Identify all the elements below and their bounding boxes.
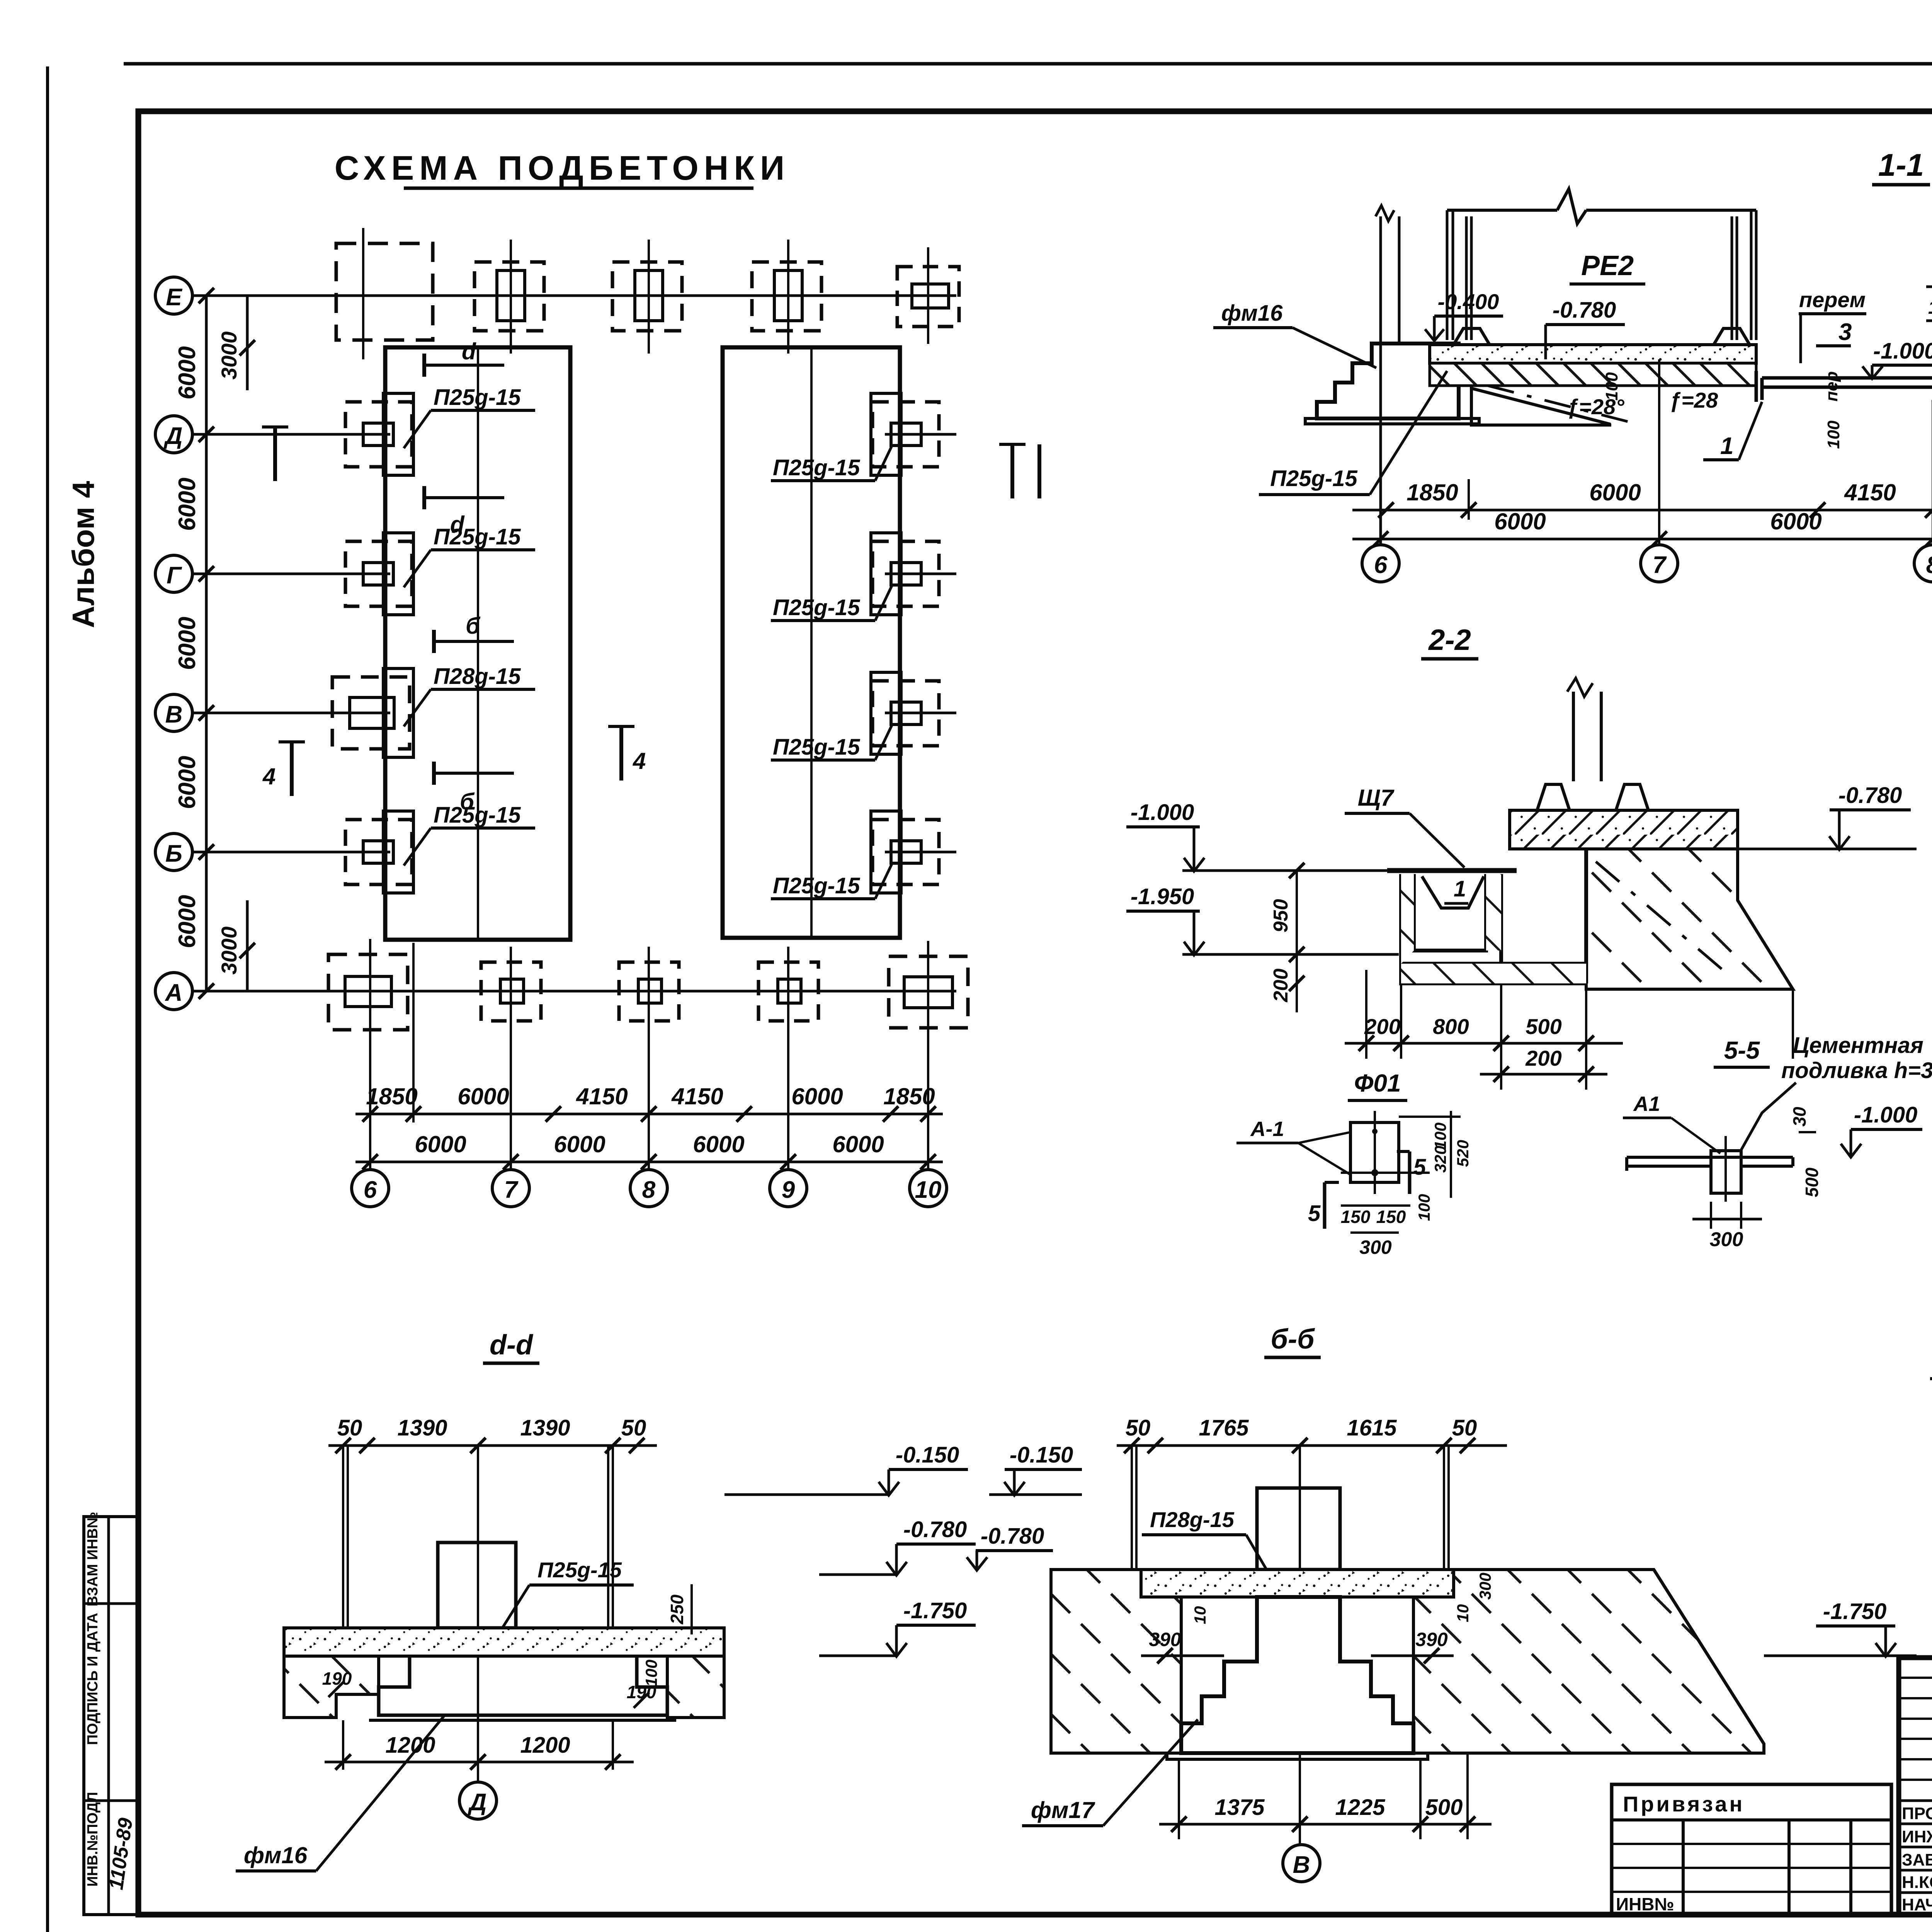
- svg-text:520: 520: [1454, 1140, 1472, 1167]
- row2 labels: [415, 1131, 884, 1157]
- cut mark b top: [434, 613, 514, 653]
- svg-text:П25g-15: П25g-15: [773, 735, 860, 760]
- foundation base plate b-b: [1167, 1753, 1428, 1759]
- slab RE2 concrete band: [1430, 345, 1756, 363]
- plan bubble 8: [630, 1170, 667, 1207]
- bottom dims 1200 1200: [325, 1720, 634, 1770]
- slab RE2 upstand left: [1454, 328, 1490, 345]
- soil hatch left d-d: [284, 1656, 379, 1718]
- svg-text:50: 50: [337, 1415, 362, 1440]
- svg-text:ПРОВЕР: ПРОВЕР: [1902, 1804, 1932, 1823]
- cut mark d top: [424, 338, 504, 377]
- heading b-b: [1264, 1324, 1321, 1357]
- svg-text:Альбом 4: Альбом 4: [66, 481, 100, 628]
- svg-text:50: 50: [621, 1415, 646, 1440]
- svg-text:100: 100: [642, 1660, 660, 1687]
- svg-text:В: В: [165, 701, 183, 728]
- soil mass dashdot: [1596, 862, 1727, 974]
- elevation -0.780 b-b: [967, 1524, 1053, 1570]
- sec1 dim row A: [1352, 480, 1932, 518]
- plan bubble 7: [492, 1170, 529, 1207]
- svg-text:5: 5: [1308, 1201, 1321, 1226]
- svg-text:фм17: фм17: [1031, 1797, 1095, 1823]
- grid line G right: [885, 573, 956, 575]
- cut mark 4 right: [608, 726, 646, 781]
- cut mark 4 left: [262, 742, 305, 796]
- svg-text:950: 950: [1270, 899, 1292, 933]
- svg-text:-0.780: -0.780: [903, 1517, 967, 1542]
- svg-text:-1.000: -1.000: [1873, 338, 1932, 364]
- dim ticks left column: [199, 288, 214, 999]
- title block small rows: [1899, 1678, 1932, 1780]
- cut mark 5 left: [1308, 1182, 1339, 1229]
- dim line row1: [355, 1113, 943, 1116]
- svg-text:Цементная: Цементная: [1793, 1033, 1923, 1058]
- label A1: [1623, 1092, 1720, 1153]
- svg-text:ИНВ№: ИНВ№: [1616, 1894, 1674, 1914]
- 5-5 plate: [1627, 1157, 1793, 1171]
- svg-text:3000: 3000: [217, 332, 241, 380]
- label FM16 left: [1213, 301, 1376, 368]
- svg-text:2-2: 2-2: [1428, 624, 1471, 656]
- svg-text:б: б: [460, 789, 475, 815]
- ground line right b-b: [1454, 1568, 1654, 1571]
- svg-text:500: 500: [1526, 1014, 1561, 1039]
- svg-text:7: 7: [1653, 552, 1667, 578]
- 3000 dim top: [217, 296, 255, 390]
- footing A7: [481, 947, 541, 1037]
- dim 150 150: [1926, 298, 1932, 321]
- tank RE2 right wall: [1732, 210, 1756, 340]
- elevation -1.000 5-5: [1841, 1102, 1922, 1157]
- PRIVYAZAN TABLE: [1612, 1784, 1891, 1915]
- svg-text:6000: 6000: [457, 1083, 509, 1109]
- svg-text:1850: 1850: [883, 1083, 935, 1109]
- svg-text:Щ7: Щ7: [1358, 785, 1395, 811]
- elevation -1.950 2-2: [1126, 884, 1399, 955]
- svg-text:500: 500: [1425, 1795, 1463, 1820]
- svg-text:300: 300: [1476, 1573, 1494, 1600]
- svg-text:250: 250: [667, 1594, 687, 1624]
- svg-text:10: 10: [915, 1177, 942, 1203]
- svg-text:-0.780: -0.780: [1553, 298, 1616, 323]
- elevation -1.000 2-2: [1126, 800, 1387, 871]
- foundation teeth right: [1616, 784, 1648, 810]
- F01 bottom dims: [1341, 1206, 1410, 1258]
- footing A9: [759, 947, 818, 1037]
- svg-text:1375: 1375: [1214, 1795, 1265, 1820]
- label P25g-15 d-d: [495, 1558, 634, 1640]
- label FM17 b-b: [1022, 1719, 1198, 1826]
- label P25g-15 row G right: [771, 584, 893, 621]
- tank RE2 top: [1447, 189, 1756, 224]
- svg-text:Г: Г: [167, 562, 182, 589]
- PLAN LABELS: [262, 338, 1039, 899]
- svg-text:Ф01: Ф01: [1354, 1069, 1401, 1097]
- elevation -0.150 b-b: [989, 1442, 1082, 1495]
- svg-text:6000: 6000: [1494, 509, 1546, 534]
- svg-text:РЕ2: РЕ2: [1581, 250, 1634, 281]
- F01 plate plan: [1341, 1111, 1430, 1194]
- svg-text:Д: Д: [468, 1789, 487, 1816]
- sec1 bubble 7: [1641, 545, 1678, 582]
- SECTION d-d: [236, 1330, 976, 1871]
- svg-text:П25g-15: П25g-15: [537, 1558, 622, 1582]
- svg-text:Н.КОНТР: Н.КОНТР: [1902, 1873, 1932, 1892]
- sec1 bubble 8: [1914, 545, 1932, 582]
- footing G left: [345, 533, 413, 615]
- svg-text:6000: 6000: [832, 1131, 884, 1157]
- concrete band 2-2: [1510, 810, 1738, 849]
- svg-text:30: 30: [1789, 1107, 1810, 1127]
- svg-text:300: 300: [1359, 1236, 1392, 1258]
- left foundation base plate: [1305, 418, 1479, 424]
- svg-text:Привязан: Привязан: [1623, 1792, 1745, 1816]
- svg-text:-1.750: -1.750: [1823, 1599, 1886, 1624]
- footing E7: [474, 240, 544, 354]
- privyazan box: [1612, 1784, 1891, 1915]
- DETAIL F01: [1236, 1069, 1472, 1258]
- svg-text:-0.150: -0.150: [1010, 1442, 1073, 1468]
- grid line E: [192, 294, 956, 297]
- slab RE2 upstand right: [1714, 328, 1750, 345]
- dim 300 5-5: [1692, 1202, 1762, 1251]
- svg-text:6000: 6000: [1770, 509, 1821, 534]
- svg-text:Е: Е: [166, 284, 182, 311]
- svg-text:10: 10: [1191, 1606, 1209, 1624]
- svg-text:4150: 4150: [576, 1083, 628, 1109]
- svg-text:ПОДПИСЬ И ДАТА: ПОДПИСЬ И ДАТА: [85, 1613, 101, 1745]
- svg-text:8: 8: [642, 1177, 656, 1203]
- svg-text:-0.780: -0.780: [981, 1524, 1044, 1549]
- svg-text:100: 100: [1602, 372, 1621, 401]
- svg-text:6: 6: [1374, 552, 1388, 578]
- footing B right: [871, 811, 939, 893]
- bottom dims b-b: [1159, 1753, 1492, 1839]
- dim 100 300 rot right b-b: [1454, 1573, 1494, 1622]
- grid bubble E: [155, 277, 192, 314]
- svg-text:П25g-15: П25g-15: [773, 873, 860, 898]
- SECTION b-b: [967, 1324, 1917, 1882]
- elevation -0.780 left: [1546, 298, 1625, 359]
- svg-text:10: 10: [1454, 1604, 1472, 1622]
- svg-text:3: 3: [1838, 319, 1852, 345]
- baseline b-b: [1051, 1752, 1167, 1755]
- svg-text:-1.000: -1.000: [1131, 800, 1194, 825]
- heading F01: [1348, 1069, 1407, 1100]
- row1 labels: [366, 1083, 935, 1109]
- svg-text:150: 150: [1928, 298, 1932, 318]
- svg-text:б: б: [466, 613, 481, 639]
- row1 ticks: [362, 1106, 936, 1122]
- row2 ticks: [362, 1154, 936, 1170]
- svg-text:1615: 1615: [1347, 1415, 1397, 1440]
- dims 200 800 500 bottom 2-2: [1345, 970, 1793, 1090]
- svg-text:d: d: [462, 338, 476, 364]
- svg-text:100: 100: [1431, 1122, 1449, 1150]
- svg-text:500: 500: [1802, 1167, 1822, 1197]
- svg-text:190: 190: [322, 1668, 352, 1689]
- dim line row2: [355, 1161, 943, 1163]
- plan title underline: [404, 187, 753, 190]
- svg-text:фм16: фм16: [244, 1842, 308, 1868]
- top dims d-d: [328, 1415, 657, 1453]
- foundation base line d-d: [369, 1719, 676, 1722]
- footing D right: [871, 393, 939, 475]
- svg-text:200: 200: [1270, 969, 1292, 1003]
- svg-text:800: 800: [1433, 1014, 1469, 1039]
- SECTION 1-1: [1213, 148, 1932, 582]
- PLAN BOTTOM DIMS: [352, 943, 947, 1207]
- svg-text:пер: пер: [1822, 371, 1841, 401]
- foundation d-d: [379, 1656, 667, 1715]
- stamp column divider vertical: [107, 1517, 110, 1915]
- column axis 6: [1376, 206, 1399, 545]
- svg-text:А1: А1: [1633, 1092, 1660, 1116]
- label Sch7: [1345, 785, 1464, 867]
- svg-text:П25g-15: П25g-15: [434, 524, 521, 549]
- stamp column box: [84, 1517, 138, 1915]
- title block name rows: [1899, 1801, 1932, 1893]
- cut mark 1 right: [999, 444, 1039, 498]
- svg-text:50: 50: [1452, 1415, 1477, 1440]
- footing E6 dashed: [336, 228, 433, 359]
- dim 390 right b-b: [1371, 1629, 1454, 1663]
- svg-text:-0.150: -0.150: [896, 1442, 959, 1468]
- label P25g-15 row D right: [771, 444, 893, 481]
- footing D left: [345, 393, 413, 475]
- label P25g-15 row B right: [771, 862, 893, 899]
- svg-text:9: 9: [782, 1177, 795, 1203]
- footing E10: [897, 247, 959, 344]
- dim 390 left b-b: [1141, 1629, 1224, 1663]
- 5-5 anchor block: [1711, 1136, 1741, 1202]
- slab band b-b: [1141, 1570, 1454, 1597]
- svg-text:6000: 6000: [791, 1083, 843, 1109]
- column stub b-b: [1257, 1488, 1340, 1570]
- label 1 trench: [1444, 876, 1468, 903]
- SECTION 4-4: [1930, 1034, 1932, 1548]
- grid line V right: [885, 712, 956, 714]
- right tank outline: [723, 347, 900, 938]
- svg-text:1765: 1765: [1199, 1415, 1249, 1440]
- sec1 dim row B: [1352, 509, 1932, 547]
- title block outer: [1899, 1658, 1932, 1915]
- svg-text:50: 50: [1126, 1415, 1151, 1440]
- elevation -0.150 d-d: [724, 1442, 968, 1495]
- svg-text:фм16: фм16: [1221, 301, 1283, 326]
- label P25g-15 row B: [404, 803, 535, 866]
- heading d-d: [483, 1330, 539, 1363]
- svg-text:подливка h=30 мм: подливка h=30 мм: [1781, 1058, 1932, 1083]
- label P25g-15 row D: [404, 385, 535, 448]
- svg-text:П25g-15: П25g-15: [773, 455, 860, 480]
- cut mark 5 right: [1397, 1151, 1426, 1194]
- footing V right: [871, 672, 939, 754]
- soil hatch right b-b: [1413, 1570, 1764, 1753]
- note leader: [1741, 1083, 1796, 1151]
- svg-text:200: 200: [1364, 1014, 1400, 1039]
- stamp column divider h1: [84, 1602, 138, 1605]
- grid line V: [192, 712, 390, 714]
- foundation pyramid b-b: [1181, 1597, 1413, 1753]
- column stub d-d: [438, 1543, 516, 1628]
- svg-text:б-б: б-б: [1270, 1324, 1315, 1355]
- svg-text:Д: Д: [163, 423, 183, 449]
- LEFT MARGIN STAMPS: [66, 481, 138, 1915]
- svg-text:8: 8: [1926, 552, 1932, 578]
- label A-1: [1236, 1117, 1350, 1175]
- svg-text:6000: 6000: [415, 1131, 466, 1157]
- PLAN SIDE FOOTINGS LEFT: [332, 393, 413, 893]
- label perem: [1799, 287, 1866, 363]
- soil hatch right d-d: [667, 1656, 724, 1718]
- soil mass 2-2: [1586, 849, 1793, 989]
- svg-text:В: В: [1293, 1852, 1310, 1878]
- svg-text:П25g-15: П25g-15: [434, 385, 521, 410]
- svg-text:Б: Б: [165, 840, 182, 867]
- svg-text:6000: 6000: [174, 346, 201, 400]
- dim 250 rotated d-d: [667, 1584, 692, 1634]
- grid bubble G: [155, 555, 192, 592]
- dim 550: [1926, 259, 1932, 294]
- svg-text:1: 1: [1454, 876, 1466, 901]
- slab band d-d: [284, 1628, 724, 1656]
- svg-text:1: 1: [1720, 433, 1733, 459]
- grid line G: [192, 573, 390, 575]
- witness doubles b-b: [1132, 1446, 1449, 1824]
- plan bubble 6: [352, 1170, 389, 1207]
- svg-text:1850: 1850: [366, 1083, 417, 1109]
- sec1 witness verticals: [1469, 359, 1932, 545]
- fill wedge left: [1471, 386, 1638, 425]
- svg-text:4: 4: [633, 748, 646, 774]
- svg-text:6000: 6000: [174, 895, 201, 948]
- plan bubble 10: [910, 1170, 947, 1207]
- svg-text:1200: 1200: [520, 1733, 570, 1758]
- svg-text:1850: 1850: [1406, 480, 1458, 505]
- svg-text:6000: 6000: [1589, 480, 1641, 505]
- cut mark d bottom: [424, 486, 504, 537]
- left vertical dimension line: [205, 296, 208, 991]
- svg-text:100: 100: [1824, 420, 1843, 449]
- footing G right: [871, 533, 939, 615]
- PLAN SIDE FOOTINGS RIGHT: [871, 393, 939, 893]
- svg-text:П25g-15: П25g-15: [434, 803, 521, 828]
- SECTION 2-2: [1126, 624, 1917, 1090]
- grid line A: [192, 990, 956, 993]
- grid line B: [192, 851, 390, 854]
- witness doubles d-d: [343, 1446, 613, 1762]
- svg-text:5: 5: [1413, 1155, 1426, 1180]
- svg-text:П25g-15: П25g-15: [1270, 466, 1357, 491]
- heading 2-2: [1421, 624, 1478, 659]
- svg-text:П28g-15: П28g-15: [1150, 1507, 1235, 1532]
- svg-text:ƒ=28: ƒ=28: [1669, 388, 1718, 412]
- name row texts: [1902, 1804, 1932, 1914]
- svg-text:1225: 1225: [1335, 1795, 1385, 1820]
- svg-text:ИНЖПК: ИНЖПК: [1902, 1827, 1932, 1846]
- svg-text:-1.000: -1.000: [1854, 1102, 1917, 1128]
- outer sheet border top: [124, 62, 1932, 66]
- 6000 labels left column: [174, 346, 201, 948]
- stamp column divider h2: [84, 1799, 138, 1802]
- label 3: [1816, 319, 1852, 346]
- svg-text:П25g-15: П25g-15: [773, 595, 860, 620]
- PLAN FOOTINGS ROW E: [336, 228, 959, 359]
- svg-text:ЗАВ ГР.: ЗАВ ГР.: [1902, 1850, 1932, 1869]
- label FM16 d-d: [236, 1716, 444, 1871]
- footing E8: [612, 240, 682, 354]
- svg-text:d-d: d-d: [490, 1330, 534, 1361]
- right tank centerline: [810, 347, 813, 938]
- svg-text:4150: 4150: [671, 1083, 723, 1109]
- svg-text:6000: 6000: [554, 1131, 605, 1157]
- footing V left: [332, 668, 413, 757]
- svg-text:-0.400: -0.400: [1438, 289, 1499, 314]
- soil hatch left b-b: [1051, 1570, 1181, 1753]
- grid line D: [192, 433, 390, 436]
- cut mark b bottom: [434, 762, 514, 815]
- svg-text:100: 100: [1415, 1194, 1433, 1221]
- svg-text:4150: 4150: [1844, 480, 1896, 505]
- footing B left: [345, 811, 413, 893]
- bubble D d-d: [459, 1762, 497, 1819]
- dim 30 rotated: [1789, 1107, 1816, 1132]
- svg-text:300: 300: [1710, 1228, 1743, 1251]
- DETAIL 5-5: [1623, 1033, 1932, 1251]
- svg-text:-0.780: -0.780: [1838, 783, 1902, 808]
- label P25g-15 row G: [404, 524, 535, 587]
- svg-text:1-1: 1-1: [1878, 148, 1924, 183]
- svg-text:5-5: 5-5: [1724, 1036, 1760, 1064]
- svg-text:-1.950: -1.950: [1131, 884, 1194, 909]
- left foundation FM16: [1317, 344, 1459, 418]
- footing A8: [619, 947, 679, 1037]
- svg-text:ИНВ.№ПОДЛ: ИНВ.№ПОДЛ: [85, 1792, 101, 1886]
- middle channel floor: [1756, 371, 1932, 402]
- sec1 bubble 6: [1362, 545, 1399, 582]
- svg-text:1390: 1390: [520, 1415, 570, 1440]
- svg-text:3000: 3000: [217, 927, 241, 975]
- outer sheet border left: [46, 66, 49, 1932]
- grid line D right: [885, 433, 956, 436]
- grid bubble D: [155, 416, 192, 453]
- svg-text:П28g-15: П28g-15: [434, 664, 521, 689]
- svg-text:150: 150: [1341, 1207, 1371, 1227]
- 3000 dim bottom: [217, 900, 255, 991]
- svg-text:6000: 6000: [693, 1131, 744, 1157]
- trench form V: [1422, 876, 1484, 908]
- top dims b-b: [1117, 1415, 1507, 1453]
- svg-text:А-1: А-1: [1250, 1117, 1284, 1141]
- label P28g-15 row V: [404, 664, 535, 726]
- witness verticals: [370, 943, 928, 1171]
- privyazan header line: [1612, 1818, 1891, 1821]
- trench shield plate: [1387, 868, 1517, 873]
- label 1 ref: [1703, 402, 1762, 460]
- label RE2: [1570, 250, 1645, 284]
- svg-text:6000: 6000: [174, 617, 201, 670]
- svg-text:А: А: [165, 980, 183, 1006]
- left tank outline: [385, 347, 570, 940]
- elevation -1.750 d-d: [819, 1598, 976, 1656]
- bubble V b-b: [1283, 1824, 1320, 1882]
- PLAN VIEW: [155, 149, 956, 1010]
- elevation -0.780 2-2: [1738, 783, 1917, 850]
- grid bubble V: [155, 694, 192, 731]
- footing A10: [889, 941, 968, 1043]
